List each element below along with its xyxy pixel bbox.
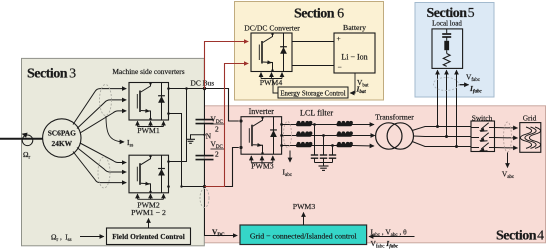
- svg-text:Section6: Section6: [294, 7, 344, 22]
- svg-text:SC6PAG: SC6PAG: [48, 128, 76, 137]
- svg-text:Field Oriented Control: Field Oriented Control: [112, 232, 185, 241]
- svg-text:Grid: Grid: [523, 113, 537, 122]
- svg-text:Section4: Section4: [496, 229, 544, 244]
- svg-text:PWM1: PWM1: [137, 126, 160, 135]
- svg-text:Grid − connected/Islanded cont: Grid − connected/Islanded control: [250, 231, 358, 240]
- svg-text:PWM3: PWM3: [251, 162, 274, 171]
- svg-text:DC/DC Converter: DC/DC Converter: [244, 24, 300, 33]
- svg-text:−: −: [338, 62, 342, 71]
- svg-text:Battery: Battery: [343, 23, 366, 32]
- svg-text:Machine side converters: Machine side converters: [112, 67, 184, 76]
- svg-text:Local load: Local load: [432, 20, 462, 28]
- svg-text:Li − Ion: Li − Ion: [341, 53, 367, 62]
- svg-text:24KW: 24KW: [52, 139, 73, 148]
- svg-text:PWM4: PWM4: [260, 78, 283, 87]
- svg-text:+: +: [337, 34, 341, 43]
- svg-text:Energy Storage Control: Energy Storage Control: [280, 91, 345, 98]
- svg-text:PWM1 − 2: PWM1 − 2: [131, 208, 166, 217]
- svg-text:2: 2: [215, 150, 219, 159]
- svg-text:PWM3: PWM3: [293, 202, 316, 211]
- svg-text:LCL filter: LCL filter: [300, 109, 333, 118]
- svg-text:Transformer: Transformer: [375, 113, 414, 122]
- svg-text:Inverter: Inverter: [249, 107, 275, 116]
- svg-text:DC Bus: DC Bus: [191, 78, 215, 87]
- svg-text:Section3: Section3: [27, 66, 76, 81]
- svg-text:2: 2: [215, 125, 219, 134]
